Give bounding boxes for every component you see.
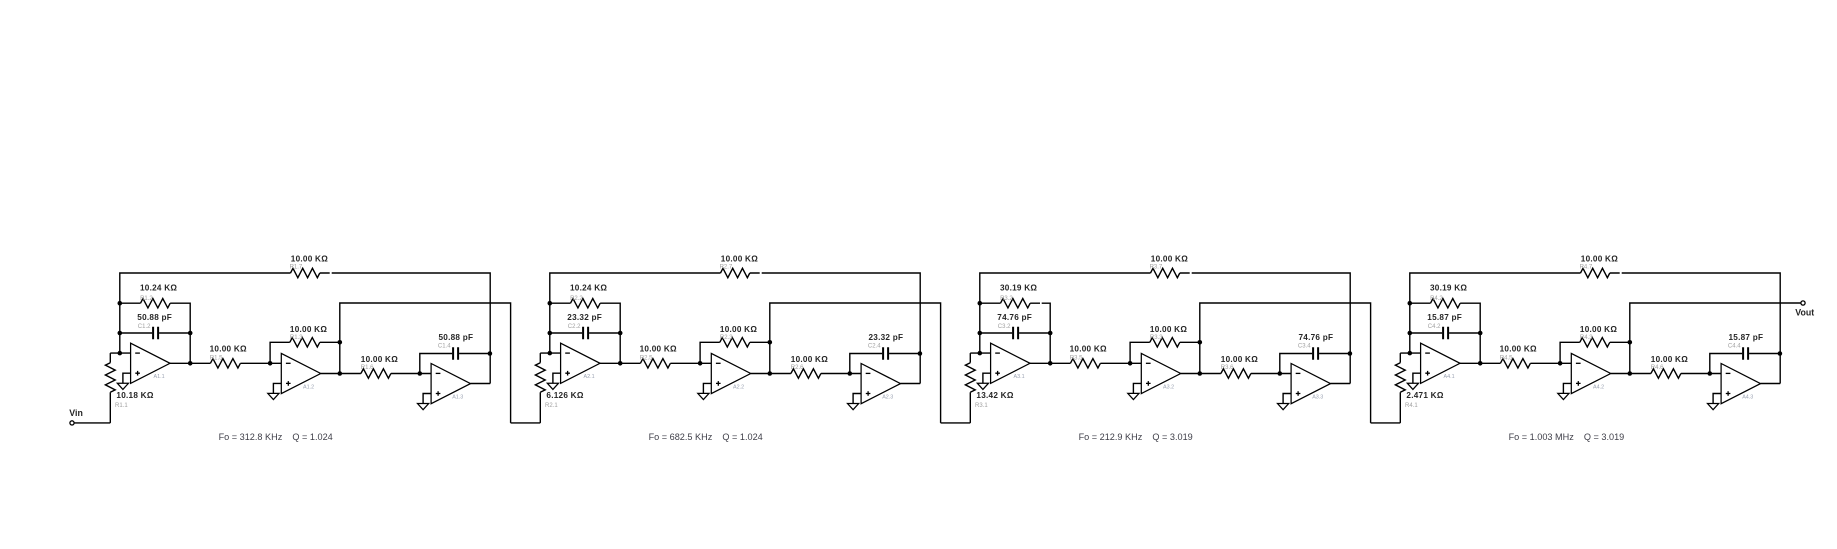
svg-text:23.32 pF: 23.32 pF	[869, 333, 904, 342]
wire: stage 3 output to stage 4 input (bottom)	[1371, 422, 1401, 424]
svg-text:R1.3: R1.3	[290, 335, 303, 341]
svg-text:10.00 KΩ: 10.00 KΩ	[1580, 325, 1617, 334]
wire: R4.6 to A4.3 inverting input	[1681, 373, 1721, 375]
svg-text:C4.2: C4.2	[1428, 324, 1441, 330]
svg-text:10.00 KΩ: 10.00 KΩ	[1651, 355, 1688, 364]
op-amp A4.3	[1721, 364, 1760, 404]
ground at A1.2 + input	[268, 383, 282, 399]
svg-text:74.76 pF: 74.76 pF	[997, 313, 1032, 322]
svg-text:C2.4: C2.4	[868, 343, 881, 349]
svg-text:C1.4: C1.4	[438, 343, 451, 349]
svg-text:10.00 KΩ: 10.00 KΩ	[791, 355, 828, 364]
wire: A4.1 inverting input	[1400, 352, 1420, 354]
wire: stage 1 output to stage 2 input (bottom)	[511, 422, 541, 424]
wire: stage 2 top feedback loop left/top	[550, 273, 721, 353]
resistor R2.5 10.00 KOhm	[640, 345, 677, 369]
ground at A4.3 + input	[1708, 394, 1722, 410]
resistor R1.7 10.00 KOhm	[290, 254, 329, 277]
node: stage 1 riser junctions	[338, 340, 343, 345]
capacitor C4.4 (feedback)	[1710, 333, 1780, 374]
svg-text:10.24 KΩ: 10.24 KΩ	[570, 284, 607, 293]
svg-text:R3.3: R3.3	[1150, 335, 1163, 341]
resistor R4.3 10.00 KOhm (feedback)	[1560, 325, 1630, 363]
node: C3.4 junctions	[1278, 371, 1283, 376]
svg-text:A1.1: A1.1	[154, 374, 165, 380]
op-amp A2.2	[711, 353, 750, 393]
capacitor C3.2	[980, 313, 1050, 339]
ground at A3.1 + input	[977, 373, 990, 389]
svg-text:R2.3: R2.3	[720, 335, 733, 341]
resistor R3.5 10.00 KOhm	[1070, 345, 1107, 369]
op-amp A3.2	[1141, 353, 1180, 393]
svg-text:A2.3: A2.3	[882, 394, 893, 400]
svg-text:R4.5: R4.5	[1500, 355, 1513, 361]
svg-text:A3.3: A3.3	[1312, 394, 1323, 400]
resistor R4.5 10.00 KOhm	[1500, 345, 1537, 369]
wire: A1.1 inverting input	[110, 352, 130, 354]
svg-text:Fo = 682.5 KHz Q = 1.024: Fo = 682.5 KHz Q = 1.024	[649, 432, 763, 442]
node: stage 1 A1.1 feedback-loop junctions	[188, 331, 193, 336]
svg-text:10.00 KΩ: 10.00 KΩ	[720, 325, 757, 334]
svg-text:50.88 pF: 50.88 pF	[137, 313, 172, 322]
capacitor C3.4 (feedback)	[1280, 333, 1350, 374]
wire: stage 4 top loop right segment + right vertical	[1610, 273, 1780, 384]
resistor R1.1 (input)	[105, 353, 153, 423]
resistor R3.6 10.00 KOhm	[1221, 355, 1258, 378]
capacitor C1.4 (feedback)	[420, 333, 490, 374]
resistor R2.7 10.00 KOhm	[720, 254, 759, 277]
node: C4.4 junctions	[1708, 371, 1713, 376]
node: C2.4 junctions	[848, 371, 853, 376]
svg-text:A3.1: A3.1	[1014, 374, 1025, 380]
node: stage 1 inverting-input net junctions	[118, 301, 123, 306]
svg-text:30.19 KΩ: 30.19 KΩ	[1430, 284, 1467, 293]
ground at A2.3 + input	[848, 394, 862, 410]
resistor R3.3 10.00 KOhm (feedback)	[1130, 325, 1200, 363]
resistor R1.2	[120, 284, 190, 364]
svg-text:R4.7: R4.7	[1580, 264, 1593, 270]
svg-text:15.87 pF: 15.87 pF	[1729, 333, 1764, 342]
svg-text:A4.3: A4.3	[1742, 394, 1753, 400]
wire: A1.3 output	[471, 383, 491, 385]
ground at A3.3 + input	[1278, 394, 1292, 410]
wire: R4.5 to A4.2 inverting input	[1530, 362, 1571, 364]
resistor R4.1 (input)	[1395, 353, 1443, 423]
svg-text:Fo = 312.8 KHz Q = 1.024: Fo = 312.8 KHz Q = 1.024	[219, 432, 333, 442]
wire: stage 2 top loop right segment + right vertical	[750, 273, 920, 384]
svg-text:R1.7: R1.7	[290, 264, 303, 270]
ground at A2.1 + input	[547, 373, 560, 389]
wire: stage 1 top feedback loop left/top	[120, 273, 291, 353]
capacitor C2.2	[550, 313, 620, 339]
node: stage 3 riser junctions	[1198, 340, 1203, 345]
node: stage 4 riser junctions	[1628, 340, 1633, 345]
wire: stage 2 output to stage 3 input (bottom)	[941, 422, 971, 424]
svg-text:Fo = 1.003 MHz Q = 3.019: Fo = 1.003 MHz Q = 3.019	[1509, 432, 1625, 442]
svg-text:74.76 pF: 74.76 pF	[1299, 333, 1334, 342]
ground at A4.1 + input	[1407, 373, 1420, 389]
svg-text:15.87 pF: 15.87 pF	[1427, 313, 1462, 322]
resistor R1.3 10.00 KOhm (feedback)	[270, 325, 340, 363]
svg-text:R2.1: R2.1	[545, 403, 558, 409]
wire: A1.1 output	[170, 362, 210, 364]
node: R1.3 tap junction	[268, 361, 273, 366]
svg-text:10.00 KΩ: 10.00 KΩ	[291, 254, 328, 263]
op-amp A4.1	[1421, 343, 1460, 383]
wire: A4.1 output	[1460, 362, 1500, 364]
resistor R2.3 10.00 KOhm (feedback)	[700, 325, 770, 363]
op-amp A2.3	[861, 364, 900, 404]
svg-text:10.00 KΩ: 10.00 KΩ	[1070, 345, 1107, 354]
node: stage 3 A3.1 feedback-loop junctions	[1048, 331, 1053, 336]
svg-text:10.00 KΩ: 10.00 KΩ	[1151, 254, 1188, 263]
ground at A4.2 + input	[1558, 383, 1572, 399]
svg-text:10.18 KΩ: 10.18 KΩ	[116, 391, 153, 400]
svg-text:10.00 KΩ: 10.00 KΩ	[1500, 345, 1537, 354]
svg-text:Vout: Vout	[1795, 308, 1814, 318]
ground at A1.1 + input	[117, 373, 130, 389]
svg-text:R2.7: R2.7	[720, 264, 733, 270]
resistor R4.7 10.00 KOhm	[1580, 254, 1619, 277]
op-amp A3.1	[991, 343, 1030, 383]
svg-text:R2.5: R2.5	[640, 355, 653, 361]
svg-text:R2.6: R2.6	[791, 365, 804, 371]
ground at A2.2 + input	[698, 383, 712, 399]
svg-text:10.00 KΩ: 10.00 KΩ	[1150, 325, 1187, 334]
wire: A3.1 inverting input	[970, 352, 990, 354]
input terminal Vin	[69, 408, 110, 425]
svg-text:A1.2: A1.2	[303, 384, 314, 390]
svg-text:10.00 KΩ: 10.00 KΩ	[361, 355, 398, 364]
node: stage 4 A4.1 feedback-loop junctions	[1478, 331, 1483, 336]
wire: stage 1 output riser to next stage	[340, 303, 511, 423]
svg-text:C1.2: C1.2	[138, 324, 151, 330]
node: stage 2 inverting-input net junctions	[548, 301, 553, 306]
ground at A3.2 + input	[1128, 383, 1142, 399]
resistor R1.5 10.00 KOhm	[210, 345, 247, 369]
svg-text:R4.3: R4.3	[1580, 335, 1593, 341]
svg-text:10.00 KΩ: 10.00 KΩ	[640, 345, 677, 354]
resistor R4.6 10.00 KOhm	[1651, 355, 1688, 378]
svg-text:A4.1: A4.1	[1444, 374, 1455, 380]
wire: stage 3 output riser to next stage	[1200, 303, 1371, 423]
node: stage 2 riser junctions	[768, 340, 773, 345]
svg-text:R4.1: R4.1	[1405, 403, 1418, 409]
svg-text:10.00 KΩ: 10.00 KΩ	[1221, 355, 1258, 364]
ground at A1.3 + input	[418, 394, 432, 410]
wire: A2.1 inverting input	[540, 352, 560, 354]
svg-text:23.32 pF: 23.32 pF	[567, 313, 602, 322]
wire: stage 3 top feedback loop left/top	[980, 273, 1151, 353]
resistor R2.6 10.00 KOhm	[791, 355, 828, 378]
svg-text:R1.2: R1.2	[140, 296, 153, 302]
svg-text:50.88 pF: 50.88 pF	[439, 333, 474, 342]
svg-text:Vin: Vin	[69, 408, 83, 418]
node: stage 2 A2.1 feedback-loop junctions	[618, 331, 623, 336]
svg-text:Fo = 212.9 KHz Q = 3.019: Fo = 212.9 KHz Q = 3.019	[1079, 432, 1193, 442]
wire: R2.5 to A2.2 inverting input	[670, 362, 711, 364]
svg-text:R3.7: R3.7	[1150, 264, 1163, 270]
wire: R2.6 to A2.3 inverting input	[821, 373, 861, 375]
svg-text:13.42 KΩ: 13.42 KΩ	[976, 391, 1013, 400]
svg-text:R2.2: R2.2	[570, 296, 583, 302]
wire: A3.3 output	[1331, 383, 1351, 385]
svg-text:10.00 KΩ: 10.00 KΩ	[721, 254, 758, 263]
wire: A2.1 output	[600, 362, 640, 364]
node: R3.3 tap junction	[1128, 361, 1133, 366]
svg-text:R3.1: R3.1	[975, 403, 988, 409]
svg-text:2.471 KΩ: 2.471 KΩ	[1406, 391, 1443, 400]
node: C1.4 junctions	[418, 371, 423, 376]
wire: A1.2 output	[321, 373, 361, 375]
wire: stage 2 output riser to next stage	[770, 303, 941, 423]
wire: R3.6 to A3.3 inverting input	[1251, 373, 1291, 375]
output terminal Vout	[1795, 301, 1814, 318]
op-amp A4.2	[1571, 353, 1610, 393]
svg-text:A2.2: A2.2	[733, 384, 744, 390]
svg-text:R1.1: R1.1	[115, 403, 128, 409]
svg-text:C3.4: C3.4	[1298, 343, 1311, 349]
resistor R3.7 10.00 KOhm	[1150, 254, 1189, 277]
svg-text:10.00 KΩ: 10.00 KΩ	[210, 345, 247, 354]
svg-text:R4.6: R4.6	[1651, 365, 1664, 371]
capacitor C2.4 (feedback)	[850, 333, 920, 374]
svg-text:R3.5: R3.5	[1070, 355, 1083, 361]
svg-text:R1.6: R1.6	[361, 365, 374, 371]
op-amp A2.1	[561, 343, 600, 383]
svg-text:6.126 KΩ: 6.126 KΩ	[546, 391, 583, 400]
svg-text:R4.2: R4.2	[1430, 296, 1443, 302]
wire: R1.5 to A1.2 inverting input	[240, 362, 281, 364]
svg-text:30.19 KΩ: 30.19 KΩ	[1000, 284, 1037, 293]
resistor R4.2	[1410, 284, 1480, 364]
wire: stage 4 top feedback loop left/top	[1410, 273, 1581, 353]
wire: stage 1 top loop right segment + right vertical	[320, 273, 490, 384]
wire: A2.2 output	[751, 373, 791, 375]
resistor R3.2	[980, 284, 1050, 364]
wire: stage 3 top loop right segment + right vertical	[1180, 273, 1350, 384]
op-amp A1.1	[131, 343, 170, 383]
svg-text:A2.1: A2.1	[584, 374, 595, 380]
resistor R3.1 (input)	[965, 353, 1013, 423]
resistor R2.2	[550, 284, 620, 364]
svg-text:10.00 KΩ: 10.00 KΩ	[1581, 254, 1618, 263]
resistor R1.6 10.00 KOhm	[361, 355, 398, 378]
svg-text:A1.3: A1.3	[452, 394, 463, 400]
svg-text:A3.2: A3.2	[1163, 384, 1174, 390]
wire: A2.3 output	[901, 383, 921, 385]
node: stage 4 inverting-input net junctions	[1408, 301, 1413, 306]
wire: A4.3 output	[1761, 383, 1781, 385]
wire: A4.2 output	[1611, 373, 1651, 375]
svg-text:10.24 KΩ: 10.24 KΩ	[140, 284, 177, 293]
capacitor C4.2	[1410, 313, 1480, 339]
node: R2.3 tap junction	[698, 361, 703, 366]
wire: stage 4 output to Vout	[1630, 303, 1801, 374]
op-amp A1.2	[281, 353, 320, 393]
svg-text:C4.4: C4.4	[1728, 343, 1741, 349]
wire: A3.2 output	[1181, 373, 1221, 375]
node: R4.3 tap junction	[1558, 361, 1563, 366]
op-amp A1.3	[431, 364, 470, 404]
svg-text:10.00 KΩ: 10.00 KΩ	[290, 325, 327, 334]
node: stage 3 inverting-input net junctions	[978, 301, 983, 306]
resistor R2.1 (input)	[535, 353, 583, 423]
wire: A3.1 output	[1030, 362, 1070, 364]
wire: R1.6 to A1.3 inverting input	[391, 373, 431, 375]
svg-text:C3.2: C3.2	[998, 324, 1011, 330]
wire: R3.5 to A3.2 inverting input	[1100, 362, 1141, 364]
op-amp A3.3	[1291, 364, 1330, 404]
capacitor C1.2	[120, 313, 190, 339]
svg-text:R1.5: R1.5	[210, 355, 223, 361]
svg-text:R3.6: R3.6	[1221, 365, 1234, 371]
svg-text:A4.2: A4.2	[1593, 384, 1604, 390]
svg-text:R3.2: R3.2	[1000, 296, 1013, 302]
svg-text:C2.2: C2.2	[568, 324, 581, 330]
